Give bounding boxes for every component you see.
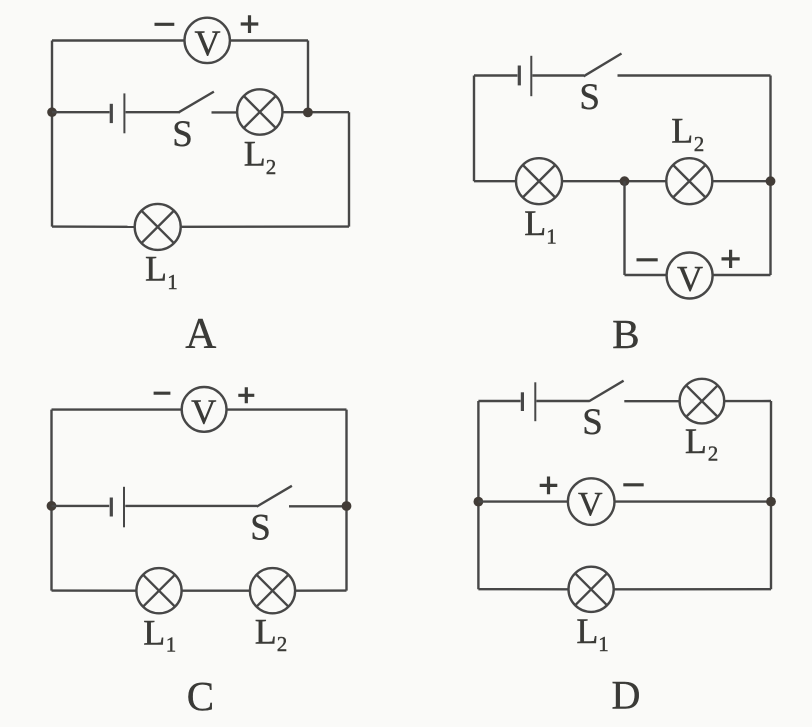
svg-text:2: 2 xyxy=(277,632,288,656)
svg-text:S: S xyxy=(250,508,271,549)
battery (circuit B) positive long plate xyxy=(530,56,532,96)
wire B battery to switch xyxy=(532,74,584,76)
wire A battery to switch xyxy=(126,111,180,113)
wire D middle right lead xyxy=(615,500,772,502)
plus sign (voltmeter A, right) xyxy=(241,15,259,33)
voltmeter V (circuit D) xyxy=(568,478,615,525)
lamp L2 (circuit B) xyxy=(666,158,712,204)
wire C left vertical xyxy=(50,410,52,591)
battery (circuit A) positive long plate xyxy=(123,93,125,133)
switch S fixed contact wire (circuit C) xyxy=(289,505,347,507)
svg-text:1: 1 xyxy=(598,632,609,656)
wire A top-right segment xyxy=(230,39,308,41)
lamp L2 (circuit A) xyxy=(237,89,282,134)
lamp L1 (circuit D) xyxy=(569,567,614,612)
svg-text:1: 1 xyxy=(166,633,177,657)
node B right junction xyxy=(766,176,776,186)
svg-text:V: V xyxy=(191,393,216,432)
lamp L1 (circuit B) xyxy=(516,158,562,204)
svg-text:L: L xyxy=(255,612,277,652)
svg-text:D: D xyxy=(612,673,641,718)
svg-text:2: 2 xyxy=(266,155,277,179)
node C left junction xyxy=(47,501,57,511)
wire D top-left segment xyxy=(478,400,520,402)
wire C bottom-left segment xyxy=(52,589,137,592)
svg-text:V: V xyxy=(677,259,703,299)
lamp L1 (circuit A) xyxy=(135,204,181,250)
voltmeter V (circuit C) xyxy=(182,387,227,432)
lamp L2 (circuit D) xyxy=(680,379,725,424)
wire A middle, node to battery xyxy=(52,111,110,113)
plus sign (voltmeter C, right) xyxy=(238,387,254,403)
svg-text:S: S xyxy=(582,402,603,443)
wire D right vertical xyxy=(770,401,772,589)
wire B voltmeter right lead xyxy=(713,274,771,276)
wire D left vertical xyxy=(477,401,479,589)
node B middle junction xyxy=(620,176,630,186)
svg-text:A: A xyxy=(185,311,216,358)
svg-text:L: L xyxy=(576,611,598,651)
minus sign (voltmeter B, left) xyxy=(637,258,658,261)
switch S blade (circuit C) xyxy=(257,486,292,507)
node D right junction xyxy=(766,497,776,507)
svg-text:L: L xyxy=(524,203,546,243)
svg-text:V: V xyxy=(195,23,221,63)
switch S blade (circuit A) xyxy=(179,92,214,113)
switch S fixed contact wire (circuit B) xyxy=(618,74,771,76)
wire B voltmeter drop xyxy=(623,181,625,275)
wire C bottom-right segment xyxy=(295,589,346,592)
battery (circuit A) negative short plate xyxy=(110,104,113,123)
wire C between lamps xyxy=(182,590,250,592)
wire B right vertical xyxy=(769,76,771,276)
wire C top-left segment xyxy=(52,408,182,410)
lamp L2 (circuit C) xyxy=(250,568,295,613)
battery (circuit C) negative short plate xyxy=(110,498,113,517)
wire A bottom-right segment xyxy=(181,225,349,228)
wire D battery to switch xyxy=(536,400,589,402)
switch S blade (circuit D) xyxy=(589,381,624,402)
wire B voltmeter left lead xyxy=(625,274,668,276)
plus sign (voltmeter B, right) xyxy=(722,250,740,268)
wire C right vertical xyxy=(345,410,347,591)
svg-text:L: L xyxy=(671,111,693,151)
wire A lamp to right node xyxy=(283,111,349,113)
svg-text:B: B xyxy=(612,311,639,357)
battery (circuit C) positive long plate xyxy=(123,487,125,528)
wire A top-left segment xyxy=(52,39,185,41)
switch S fixed contact wire (circuit A) xyxy=(212,111,238,113)
minus sign (voltmeter A, left) xyxy=(155,23,175,26)
wire D bottom-left segment xyxy=(478,588,568,590)
wire D bottom-right segment xyxy=(614,588,771,590)
wire B left vertical xyxy=(473,76,475,182)
svg-text:S: S xyxy=(172,114,193,155)
wire A drop from top to middle node xyxy=(307,41,309,113)
wire A left vertical xyxy=(51,41,53,227)
wire B top-left segment xyxy=(474,74,517,76)
svg-text:V: V xyxy=(578,486,603,523)
battery (circuit B) negative short plate xyxy=(518,66,521,86)
wire C battery to switch xyxy=(125,505,257,507)
svg-text:2: 2 xyxy=(694,132,705,156)
battery (circuit D) positive long plate xyxy=(534,382,536,421)
voltmeter V (circuit A) xyxy=(185,18,230,63)
svg-text:1: 1 xyxy=(167,270,178,294)
wire A bottom-left segment xyxy=(52,225,135,228)
wire A right vertical xyxy=(348,112,350,226)
switch S blade (circuit B) xyxy=(584,54,622,77)
wire C top-right segment xyxy=(226,408,346,410)
plus sign (voltmeter D, left) xyxy=(540,477,558,495)
svg-text:S: S xyxy=(579,77,600,118)
switch S fixed contact wire (circuit D) xyxy=(624,400,679,402)
minus sign (voltmeter C, left) xyxy=(154,392,171,395)
node A-right junction xyxy=(303,108,313,118)
node C right junction xyxy=(342,501,352,511)
wire D lamp L2 to right corner xyxy=(724,400,771,403)
svg-text:2: 2 xyxy=(708,442,719,466)
wire B middle, L1 to L2 xyxy=(562,180,666,182)
wire D middle left lead xyxy=(478,500,568,502)
svg-text:L: L xyxy=(145,249,167,289)
node D left junction xyxy=(474,497,484,507)
svg-text:L: L xyxy=(244,134,266,174)
lamp L1 (circuit C) xyxy=(136,568,181,613)
svg-text:L: L xyxy=(685,421,707,461)
battery (circuit D) negative short plate xyxy=(521,392,524,411)
svg-text:C: C xyxy=(187,673,214,719)
wire C middle, node to battery xyxy=(52,505,110,507)
minus sign (voltmeter D, right) xyxy=(623,483,643,486)
node A-left junction xyxy=(47,107,57,117)
wire B middle, left to lamp L1 xyxy=(474,180,516,182)
svg-text:L: L xyxy=(143,613,165,653)
svg-text:1: 1 xyxy=(546,225,557,249)
voltmeter V (circuit B) xyxy=(667,253,713,299)
wire B middle, L2 to right xyxy=(712,180,770,182)
